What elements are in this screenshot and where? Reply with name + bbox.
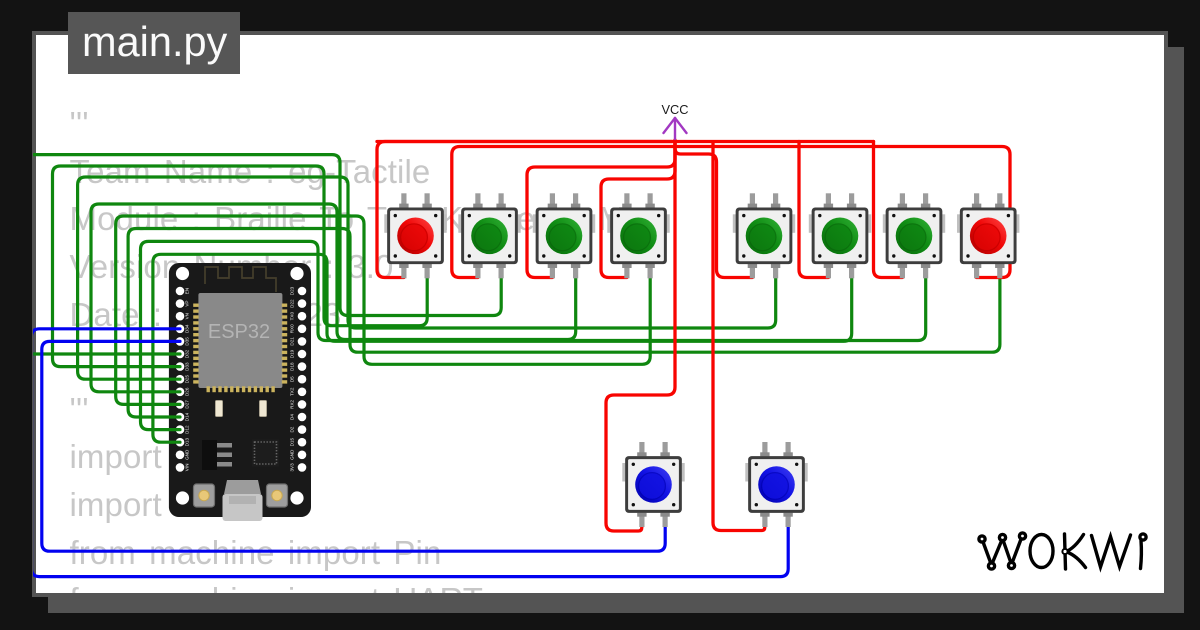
svg-text:D4: D4 — [290, 414, 295, 420]
svg-text:D5: D5 — [290, 376, 295, 382]
svg-text:D32: D32 — [185, 349, 190, 358]
svg-text:D35: D35 — [185, 337, 190, 346]
svg-text:3V3: 3V3 — [290, 463, 295, 472]
svg-text:D22: D22 — [290, 299, 295, 308]
svg-text:D21: D21 — [290, 337, 295, 346]
svg-text:VN: VN — [185, 313, 190, 319]
svg-text:VP: VP — [185, 301, 190, 307]
svg-text:D23: D23 — [290, 286, 295, 295]
svg-text:GND: GND — [185, 449, 190, 460]
svg-text:D18: D18 — [290, 362, 295, 371]
svg-text:TX2: TX2 — [290, 387, 295, 396]
svg-text:D33: D33 — [185, 362, 190, 371]
svg-text:D25: D25 — [185, 375, 190, 384]
svg-text:RX2: RX2 — [290, 399, 295, 408]
svg-text:D27: D27 — [185, 400, 190, 409]
svg-text:D13: D13 — [185, 438, 190, 447]
svg-text:D12: D12 — [185, 425, 190, 434]
svg-text:RX0: RX0 — [290, 324, 295, 333]
svg-text:D26: D26 — [185, 387, 190, 396]
svg-text:D14: D14 — [185, 412, 190, 421]
svg-text:D15: D15 — [290, 438, 295, 447]
svg-text:VCC: VCC — [661, 102, 688, 117]
svg-text:TX0: TX0 — [290, 312, 295, 321]
svg-text:ESP32: ESP32 — [208, 321, 270, 343]
svg-text:D2: D2 — [290, 426, 295, 432]
svg-text:EN: EN — [185, 288, 190, 294]
svg-text:D19: D19 — [290, 349, 295, 358]
svg-text:GND: GND — [290, 449, 295, 460]
svg-text:D34: D34 — [185, 324, 190, 333]
svg-text:VIN: VIN — [185, 464, 190, 472]
